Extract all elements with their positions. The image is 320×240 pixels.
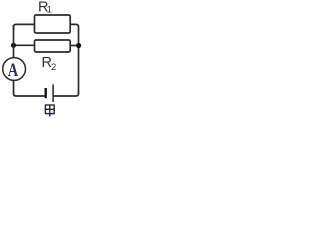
wire left rail upper	[13, 25, 15, 58]
node junction right	[76, 43, 81, 48]
wire battery right to right rail (bottom-right corner)	[54, 92, 79, 96]
resistor R1	[35, 15, 71, 33]
wire R2 left	[14, 44, 35, 46]
battery cell: long thin plate (right)	[52, 84, 54, 102]
ammeter A	[3, 58, 26, 81]
label jia (甲) drawn strokes	[45, 105, 55, 117]
wire left rail lower (to bottom-left corner and battery)	[14, 80, 46, 96]
resistor R2	[35, 40, 71, 52]
svg-text:A: A	[8, 59, 18, 80]
wire R1 right to right rail (top-right corner)	[70, 24, 78, 30]
svg-text:1: 1	[47, 4, 52, 15]
wire top (node to R1 left, with top-left corner)	[14, 24, 35, 30]
battery cell: short thick plate (left)	[45, 88, 47, 98]
wire R2 right	[70, 45, 78, 47]
wire right rail	[78, 29, 80, 93]
svg-text:2: 2	[51, 62, 56, 73]
node junction left	[11, 43, 16, 48]
